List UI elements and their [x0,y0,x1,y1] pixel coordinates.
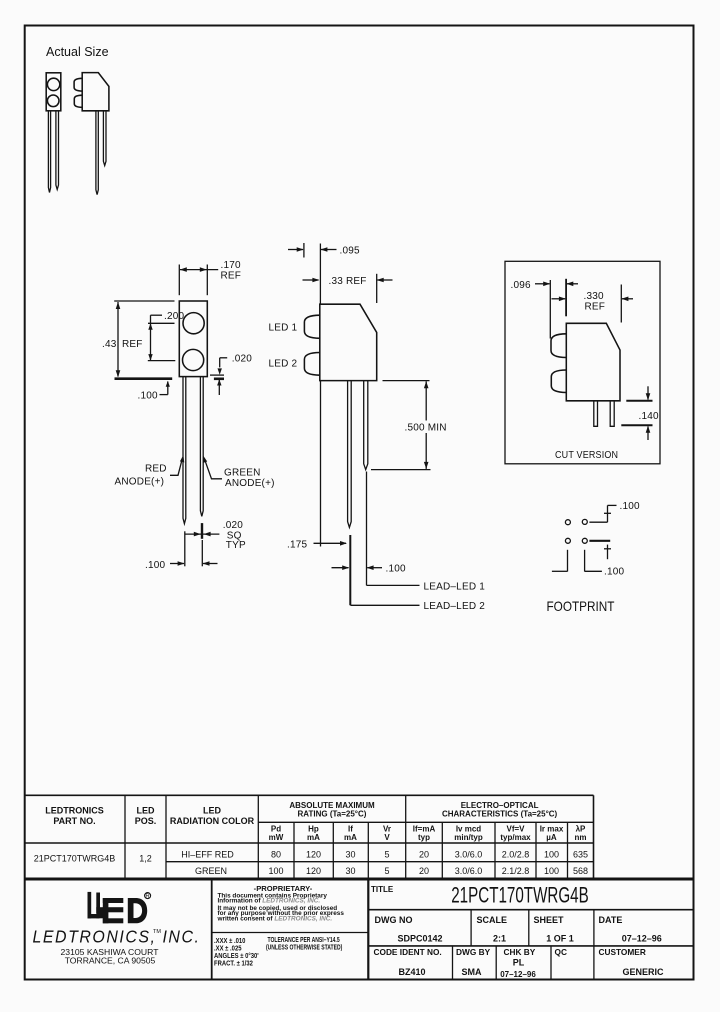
svg-text:.170: .170 [221,260,242,271]
svg-text:Information of LEDTRONICS, INC: Information of LEDTRONICS, INC. [218,897,321,904]
svg-text:µA: µA [546,833,557,842]
dimension .500 MIN [371,381,449,470]
svg-text:CHARACTERISTICS (Ta=25°C): CHARACTERISTICS (Ta=25°C) [442,810,558,819]
callout LEAD-LED 1 [367,581,486,592]
callout LEAD-LED 2 [350,601,485,612]
svg-text:RADIATION COLOR: RADIATION COLOR [170,816,255,826]
svg-text:.330: .330 [584,291,605,302]
table subheader If=mA typ [413,825,436,843]
svg-text:Actual Size: Actual Size [46,45,109,59]
dimension .140 [621,386,659,440]
dimension .170 REF [179,260,241,295]
dimension .175 [287,539,347,550]
svg-text:min/typ: min/typ [454,833,483,842]
svg-text:1 OF 1: 1 OF 1 [546,934,574,944]
svg-text:LED: LED [137,806,156,816]
svg-text:.XXX ± .010: .XXX ± .010 [214,938,246,946]
svg-text:100: 100 [268,866,283,876]
table header ELECTRO-OPTICAL CHARACTERISTICS [442,801,558,819]
dimension .100 lead spacing front [145,531,218,571]
svg-text:GENERIC: GENERIC [622,967,664,977]
table data row 1 [181,849,588,859]
table subheader Vf=V typ/max [500,825,531,843]
side view lens 1 [304,315,319,338]
svg-text:30: 30 [345,849,355,859]
table subheader Ir max uA [540,825,564,843]
table subheader lambdaP nm [575,825,587,843]
front view lens 1 circle [183,313,204,334]
svg-text:.100: .100 [145,560,166,571]
svg-text:.100: .100 [138,391,159,402]
table header LEDTRONICS PART NO. [45,806,104,827]
svg-text:80: 80 [271,849,281,859]
svg-text:PART NO.: PART NO. [53,816,95,826]
svg-text:ANODE(+): ANODE(+) [115,477,165,488]
table data row 2 [195,866,588,876]
table subheader If mA [344,825,357,843]
actual-size LED side view body [82,73,109,111]
svg-text:TORRANCE, CA 90505: TORRANCE, CA 90505 [65,956,156,966]
svg-text:FOOTPRINT: FOOTPRINT [547,598,615,614]
side view body-left extension line [320,381,322,547]
footprint dimension .100 column spacing [552,550,625,578]
dimension .200 [148,311,185,361]
svg-text:.100: .100 [604,567,625,578]
svg-text:LEDTRONICS: LEDTRONICS [45,806,104,816]
LEDtronics logo mark [88,892,151,923]
svg-text:1,2: 1,2 [139,854,152,864]
svg-text:RATING (Ta=25°C): RATING (Ta=25°C) [298,810,367,819]
svg-text:FRACT. ± 1/32: FRACT. ± 1/32 [214,960,253,968]
svg-text:.XX ± .025: .XX ± .025 [214,945,242,953]
table header LED RADIATION COLOR [170,806,255,827]
footprint hole 3 [565,538,570,543]
table header LED POS. [135,806,157,827]
svg-text:REF: REF [221,270,242,281]
dimension .43 REF [102,301,175,377]
svg-text:BZ410: BZ410 [398,967,425,977]
table header ABSOLUTE MAXIMUM RATING [289,801,375,819]
dimension .020 standoff [217,354,252,395]
svg-text:5: 5 [384,866,389,876]
svg-text:.43: .43 [102,339,117,350]
svg-text:V: V [384,833,390,842]
table subheader Hp mA [307,825,320,843]
svg-text:.33 REF: .33 REF [329,276,367,287]
footprint hole 1 [565,520,570,525]
dimension .100 side lead spacing [332,564,407,575]
side view lead 2 [364,381,368,470]
table subheader Pd mW [269,825,284,843]
svg-text:2.0/2.8: 2.0/2.8 [502,849,530,859]
svg-text:5: 5 [384,849,389,859]
svg-text:.100: .100 [386,564,407,575]
cut version frame [505,261,660,464]
footprint dimension .100 row spacing [589,501,640,522]
table subheader Iv mcd min/typ [454,825,483,843]
actual-size LED side lead 2 [103,111,106,166]
front view body [179,301,207,377]
svg-text:3.0/6.0: 3.0/6.0 [455,866,483,876]
cut version lens 2 [551,370,566,393]
actual-size LED side lens 1 [74,78,82,91]
svg-text:.020: .020 [232,354,253,365]
svg-text:TYP: TYP [226,540,246,551]
svg-text:LEAD–LED 1: LEAD–LED 1 [424,581,486,592]
LEDTRONICS INC wordmark [33,927,201,947]
svg-text:REF: REF [585,302,606,313]
dimension .096 [511,279,579,339]
actual-size LED front lead 2 [56,111,59,189]
svg-text:LEDTRONICS, INC.: LEDTRONICS, INC. [33,927,201,947]
actual-size LED front lead 1 [48,111,50,193]
svg-text:DWG BY: DWG BY [456,947,491,957]
svg-text:120: 120 [306,866,321,876]
footprint hole 2 [582,519,587,524]
svg-text:POS.: POS. [135,816,157,826]
svg-text:DATE: DATE [599,915,623,925]
footprint hole 4 [582,538,587,543]
side view lens 2 [304,353,319,376]
cut version lead 1 [594,401,598,426]
svg-text:PL: PL [513,957,525,967]
title block top thick line [24,878,694,881]
svg-text:REF: REF [122,339,143,350]
actual-size LED side lead 1 [96,111,98,195]
svg-text:ANGLES ± 0°30': ANGLES ± 0°30' [214,951,259,960]
svg-text:.500 MIN: .500 MIN [405,423,447,434]
svg-text:SCALE: SCALE [477,915,508,925]
svg-text:.175: .175 [287,539,308,550]
svg-text:20: 20 [419,866,429,876]
svg-text:HI–EFF RED: HI–EFF RED [181,849,234,859]
svg-text:120: 120 [306,849,321,859]
table subheader Vr V [383,825,391,843]
dimension .33 REF [303,274,393,303]
tolerance notes [214,936,342,967]
svg-text:.096: .096 [511,280,532,291]
svg-text:RED: RED [145,464,167,475]
svg-text:typ: typ [418,833,430,842]
actual-size LED front lens 2 [47,95,59,107]
side view lead 2 extension line [366,472,368,586]
svg-text:.100: .100 [620,501,641,512]
svg-text:CUT VERSION: CUT VERSION [555,450,618,462]
svg-text:TITLE: TITLE [371,885,394,894]
svg-text:.095: .095 [340,245,361,256]
proprietary notice [217,884,345,923]
svg-text:CODE IDENT NO.: CODE IDENT NO. [374,947,442,957]
svg-text:07–12–96: 07–12–96 [622,934,662,944]
svg-text:mA: mA [307,833,320,842]
side view body [320,304,377,380]
svg-text:100: 100 [544,849,559,859]
svg-text:LED 2: LED 2 [269,358,298,369]
svg-text:635: 635 [573,849,588,859]
svg-text:30: 30 [345,866,355,876]
actual-size LED front view body [46,73,61,111]
dimension .020 SQ TYP [185,520,246,551]
actual-size LED side lens 2 [74,95,82,107]
spec table grid [24,795,594,878]
svg-text:SMA: SMA [462,967,483,977]
svg-text:QC: QC [555,947,567,957]
dimension .330 REF [552,285,634,323]
svg-text:100: 100 [544,866,559,876]
svg-text:20: 20 [419,849,429,859]
svg-text:ANODE(+): ANODE(+) [225,478,275,489]
front view lead 1 [183,377,186,524]
svg-text:07–12–96: 07–12–96 [500,970,536,979]
front view seating plane thick line [115,377,173,380]
svg-text:CUSTOMER: CUSTOMER [599,947,646,957]
svg-text:21PCT170TWRG4B: 21PCT170TWRG4B [451,884,589,909]
svg-text:SHEET: SHEET [534,915,565,925]
cut version body [566,323,620,401]
svg-text:GREEN: GREEN [195,866,227,876]
dimension .095 [288,243,360,304]
svg-text:DWG NO: DWG NO [375,915,413,925]
actual-size LED front lens 1 [47,78,59,90]
title block grid [212,880,694,979]
front view lens 2 circle [183,349,204,370]
svg-text:mW: mW [269,833,284,842]
svg-text:written consent of LEDTRONICS,: written consent of LEDTRONICS, INC. [217,916,333,923]
side view lead 1 extension line [349,535,351,605]
svg-text:LED: LED [203,806,222,816]
dimension .100 seat left [138,381,170,402]
svg-text:CHK BY: CHK BY [504,947,536,957]
svg-text:GREEN: GREEN [224,468,261,479]
svg-text:TM: TM [153,929,161,935]
svg-text:.200: .200 [164,311,185,322]
svg-text:.140: .140 [639,411,660,422]
svg-text:(UNLESS OTHERWISE STATED): (UNLESS OTHERWISE STATED) [266,944,342,952]
label GREEN ANODE(+) with leader [203,456,275,489]
side view lead 1 [348,381,352,528]
svg-text:R: R [145,894,150,900]
svg-text:2.1/2.8: 2.1/2.8 [502,866,530,876]
cut version lens 1 [551,334,566,358]
cut version lead 2 [610,401,614,426]
label Actual Size [46,45,109,59]
front view lead 2 [200,377,203,517]
svg-text:mA: mA [344,833,357,842]
svg-text:21PCT170TWRG4B: 21PCT170TWRG4B [34,854,116,864]
svg-text:LED 1: LED 1 [269,323,298,334]
label RED ANODE(+) with leader [115,455,185,488]
footprint mid thick tick [589,541,611,559]
svg-text:568: 568 [573,866,588,876]
svg-text:nm: nm [575,833,587,842]
svg-text:.020: .020 [223,520,244,531]
svg-text:SDPC0142: SDPC0142 [397,934,442,944]
svg-text:LEAD–LED 2: LEAD–LED 2 [424,601,486,612]
svg-text:2:1: 2:1 [493,934,506,944]
front view right standoff ticks [210,375,224,379]
svg-text:typ/max: typ/max [500,833,531,842]
svg-text:3.0/6.0: 3.0/6.0 [455,849,483,859]
